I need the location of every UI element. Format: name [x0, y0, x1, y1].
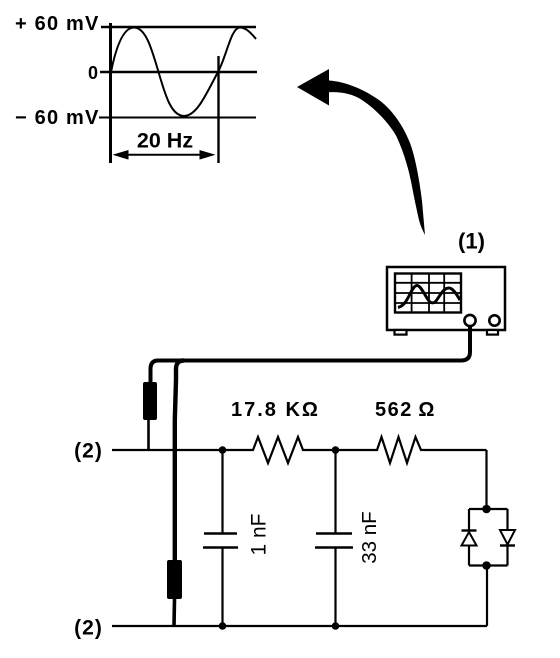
node dot bottom rail cap2 [332, 622, 340, 630]
diode D2 right (pointing down) [500, 509, 515, 566]
oscilloscope screen grid [395, 274, 461, 313]
svg-text:562 Ω: 562 Ω [375, 399, 436, 421]
node dot top rail cap2 [332, 446, 340, 454]
diode network frame top [469, 508, 508, 510]
oscilloscope screen trace [398, 286, 460, 308]
node dot diode top [482, 505, 491, 514]
oscilloscope knob left [464, 315, 475, 326]
waveform -60 mV gridline [99, 117, 256, 119]
20 Hz span arrow [113, 150, 216, 160]
resistor R1 17.8 KOhm [249, 437, 307, 463]
label 0 [88, 63, 98, 83]
wire diode network to bottom rail [486, 566, 488, 627]
svg-text:33 nF: 33 nF [358, 511, 381, 563]
label 20 Hz [137, 129, 193, 153]
svg-text:− 60 mV: − 60 mV [15, 107, 100, 129]
oscilloscope right foot [487, 330, 498, 335]
svg-text:20 Hz: 20 Hz [137, 129, 193, 153]
waveform +60 mV gridline [101, 26, 256, 29]
svg-text:(2): (2) [74, 617, 103, 640]
probe cable from scope knob [180, 326, 470, 361]
wire probe body 1 to top rail [147, 420, 150, 450]
label (2) top [74, 440, 103, 463]
wire probe body 2 to bottom rail [172, 599, 176, 626]
waveform right border [217, 56, 219, 163]
svg-text:1 nF: 1 nF [248, 513, 271, 555]
waveform 0 gridline [100, 71, 257, 73]
waveform sine trace [111, 28, 256, 117]
diode network frame bottom [469, 564, 508, 566]
label 17.8 KOhm [231, 399, 320, 421]
diode D1 left (pointing up) [462, 509, 477, 566]
resistor R2 562 Ohm [374, 437, 425, 463]
probe lead 2 ground wire [175, 361, 184, 561]
label -60 mV [15, 107, 100, 129]
svg-text:+ 60 mV: + 60 mV [15, 13, 100, 35]
label (1) [458, 229, 485, 254]
label 1 nF [248, 513, 271, 555]
probe body 1 [143, 382, 157, 420]
label (2) bottom [74, 617, 103, 640]
bottom rail wire [112, 625, 487, 627]
capacitor C2 33 nF [315, 450, 353, 626]
top rail wire [112, 449, 487, 451]
svg-text:0: 0 [88, 63, 98, 83]
probe body 2 [167, 560, 182, 599]
svg-text:17.8 KΩ: 17.8 KΩ [231, 399, 320, 421]
node dot diode bottom [482, 561, 491, 570]
node dot top rail cap1 [219, 446, 227, 454]
label 562 Ohm [375, 399, 436, 421]
oscilloscope U1 body [387, 267, 505, 330]
label 33 nF [358, 511, 381, 563]
svg-text:(2): (2) [74, 440, 103, 463]
waveform vertical axis [109, 23, 112, 163]
oscilloscope left foot [395, 330, 407, 335]
wire top rail to diode network [485, 450, 487, 509]
oscilloscope screen [395, 274, 461, 313]
node dot bottom rail cap1 [219, 622, 227, 630]
curved arrow to waveform [297, 69, 425, 235]
capacitor C1 1 nF [203, 450, 238, 626]
probe lead 1 signal wire [151, 361, 181, 384]
label +60 mV [15, 13, 100, 35]
oscilloscope knob right [489, 315, 499, 325]
svg-text:(1): (1) [458, 229, 485, 254]
